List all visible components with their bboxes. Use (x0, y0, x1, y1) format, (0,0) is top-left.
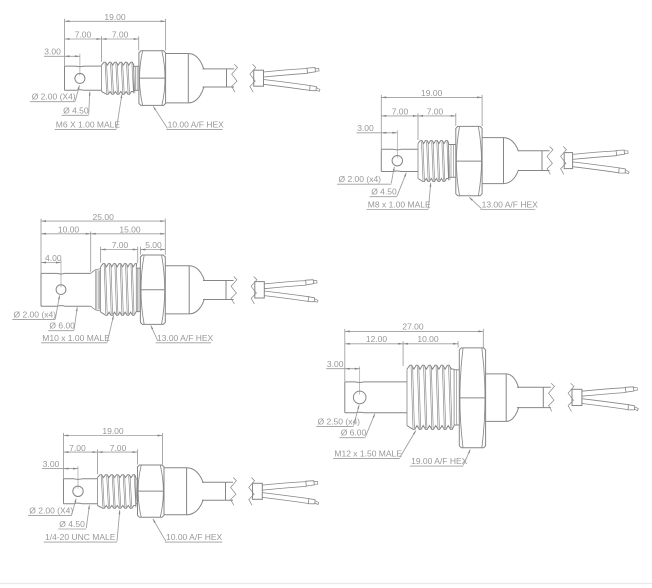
hole centreline drawing 1 (79, 54, 81, 76)
cable break mark 2 (drawing 3) (251, 277, 257, 305)
svg-text:M8 x 1.00 MALE: M8 x 1.00 MALE (368, 200, 431, 210)
extension line hex left (drawing 5) (137, 449, 139, 464)
sensor body drawing 2 (482, 137, 503, 139)
thread runout shoulder drawing 4 (454, 369, 459, 371)
dimension 7.00 (drawing 3) (101, 249, 138, 251)
thread runout shoulder drawing 1 (134, 65, 139, 67)
drawing 4 group start (316, 321, 638, 466)
svg-text:27.00: 27.00 (402, 321, 424, 331)
wire stub and lead wires drawing 3 (255, 282, 264, 298)
svg-text:10.00 A/F HEX: 10.00 A/F HEX (166, 532, 223, 542)
cable exit sleeve drawing 5 (201, 483, 226, 500)
cable exit sleeve drawing 1 (201, 70, 227, 87)
extension line tip end (drawing 3) (90, 231, 92, 272)
extension line hex left (drawing 2) (455, 113, 457, 126)
svg-text:10.00 A/F HEX: 10.00 A/F HEX (168, 119, 225, 129)
extension line thread end (drawing 3) (137, 247, 139, 263)
dimension 25.00 (drawing 3) (41, 220, 165, 222)
svg-text:7.00: 7.00 (392, 107, 409, 117)
hole centreline drawing 5 (77, 466, 79, 489)
sensor body drawing 3 (165, 265, 189, 267)
cable break mark 2 (drawing 4) (568, 383, 574, 411)
extension line left (drawing 3) (40, 219, 42, 274)
threaded section M12 (drawing 4) (407, 365, 454, 369)
cable break mark 2 (drawing 2) (561, 147, 567, 175)
svg-text:Ø 2.00 (x4): Ø 2.00 (x4) (14, 309, 57, 319)
svg-text:19.00: 19.00 (102, 426, 124, 436)
extension line hex left (drawing 1) (138, 36, 140, 50)
dimension 3.00 (drawing 2) (357, 132, 398, 134)
svg-text:12.00: 12.00 (366, 334, 388, 344)
svg-text:7.00: 7.00 (427, 107, 444, 117)
cable break mark 1 (drawing 4) (549, 383, 555, 411)
svg-text:Ø 6.00: Ø 6.00 (49, 321, 75, 331)
cable exit sleeve drawing 4 (516, 388, 544, 407)
svg-text:7.00: 7.00 (112, 30, 129, 40)
svg-text:4.00: 4.00 (45, 253, 62, 263)
cable break mark 1 (drawing 2) (547, 147, 553, 175)
probe tip cylinder drawing 2 (381, 148, 418, 151)
wire stub and lead wires drawing 2 (564, 153, 572, 169)
cable break mark 1 (drawing 5) (231, 478, 237, 506)
hex nut 10 A/F (drawing 1) (139, 51, 166, 106)
dimension 12.00 (drawing 4) (345, 343, 403, 345)
hex nut 10 A/F (drawing 5) (138, 465, 165, 517)
dimension 7.00 right (drawing 1) (102, 38, 139, 40)
svg-text:7.00: 7.00 (69, 443, 86, 453)
svg-text:7.00: 7.00 (75, 30, 92, 40)
svg-text:5.00: 5.00 (145, 240, 162, 250)
threaded section M10 (drawing 3) (101, 264, 137, 267)
extension line thread start (drawing 4) (402, 341, 404, 366)
dimension 3.00 (drawing 5) (42, 468, 78, 470)
wire stub and lead wires drawing 5 (253, 483, 263, 499)
svg-text:Ø 4.50: Ø 4.50 (59, 519, 85, 529)
extension line left (drawing 1) (64, 19, 66, 66)
hex nut 19 A/F (drawing 4) (459, 348, 485, 448)
dimension 10.00 (drawing 4) (403, 343, 458, 345)
svg-text:Ø 4.50: Ø 4.50 (63, 105, 89, 115)
cross hole drawing 1 (75, 73, 85, 83)
svg-text:15.00: 15.00 (119, 225, 141, 235)
svg-text:7.00: 7.00 (112, 240, 129, 250)
hex nut 13 A/F (drawing 3) (140, 255, 165, 324)
svg-text:Ø 6.00: Ø 6.00 (341, 428, 367, 438)
dimension 27.00 (drawing 4) (345, 330, 484, 332)
svg-text:3.00: 3.00 (44, 47, 61, 57)
dimension 19.00 (drawing 1) (65, 20, 166, 22)
extension line left (drawing 4) (344, 329, 346, 382)
hex nut 13 A/F (drawing 2) (456, 126, 482, 195)
cable break mark 1 (drawing 1) (232, 64, 238, 92)
dimension 4.00 (drawing 3) (41, 262, 61, 264)
thread runout shoulder drawing 3 (136, 267, 140, 269)
dimension 19.00 (drawing 2) (381, 96, 482, 98)
svg-text:Ø 2.00 (X4): Ø 2.00 (X4) (29, 505, 73, 515)
svg-text:13.00 A/F HEX: 13.00 A/F HEX (157, 333, 214, 343)
cable break mark 2 (drawing 5) (249, 478, 255, 506)
extension line thread start (drawing 1) (101, 36, 103, 62)
svg-text:19.00 A/F HEX: 19.00 A/F HEX (411, 456, 468, 466)
cross hole drawing 3 (56, 285, 66, 295)
dimension 3.00 (drawing 1) (44, 55, 80, 57)
probe tip cylinder drawing 3 (41, 272, 91, 275)
svg-text:3.00: 3.00 (327, 359, 344, 369)
hole centreline drawing 3 (60, 260, 62, 288)
svg-text:25.00: 25.00 (93, 212, 115, 222)
extension line hex right (drawing 5) (162, 433, 164, 465)
dimension 7.00 right (drawing 5) (98, 451, 138, 453)
dimension 15.00 (drawing 3) (91, 233, 166, 235)
hole centreline drawing 2 (396, 130, 398, 158)
thread runout shoulder drawing 5 (136, 478, 138, 480)
extension line thread end (drawing 4) (457, 341, 459, 347)
cross hole drawing 4 (353, 391, 366, 404)
cable break mark 1 (drawing 3) (231, 277, 237, 305)
cable exit sleeve drawing 2 (517, 151, 543, 170)
svg-text:19.00: 19.00 (104, 12, 126, 22)
svg-text:M10 x 1.00 MALE: M10 x 1.00 MALE (42, 333, 110, 343)
sensor body drawing 5 (164, 467, 187, 469)
svg-text:Ø 2.00 (X4): Ø 2.00 (X4) (32, 92, 76, 102)
drawing 3 group start (12, 212, 318, 343)
svg-text:10.00: 10.00 (417, 334, 439, 344)
dimension 19.00 (drawing 5) (64, 435, 163, 437)
cross hole drawing 5 (73, 486, 83, 496)
threaded section M8 (drawing 2) (418, 141, 449, 144)
dimension 7.00 left (drawing 1) (65, 38, 102, 40)
wire stub and lead wires drawing 4 (572, 389, 582, 405)
svg-text:13.00 A/F HEX: 13.00 A/F HEX (482, 200, 539, 210)
threaded section M6 (drawing 1) (102, 62, 134, 65)
probe tip cylinder drawing 1 (65, 65, 102, 68)
svg-text:Ø 4.50: Ø 4.50 (371, 187, 397, 197)
extension line thread start (drawing 2) (417, 113, 419, 140)
dimension 7.00 right (drawing 2) (418, 115, 456, 117)
thread runout neck (drawing 3) (91, 270, 95, 274)
extension line left (drawing 2) (380, 95, 382, 149)
probe tip cylinder drawing 5 (64, 478, 98, 481)
cable exit sleeve drawing 3 (202, 281, 227, 299)
cable break mark 2 (drawing 1) (250, 64, 256, 92)
threaded section 1/4-20 UNC (drawing 5) (98, 475, 136, 478)
extension line thread start (drawing 3) (100, 247, 102, 263)
extension line hex right (drawing 1) (165, 19, 167, 51)
dimension 7.00 left (drawing 5) (64, 451, 98, 453)
dimension 7.00 left (drawing 2) (381, 115, 418, 117)
svg-text:10.00: 10.00 (58, 225, 80, 235)
svg-text:3.00: 3.00 (43, 459, 60, 469)
svg-text:3.00: 3.00 (357, 123, 374, 133)
drawing 5 group start (28, 426, 319, 542)
probe tip cylinder drawing 4 (345, 381, 407, 384)
dimension 3.00 (drawing 4) (326, 368, 360, 370)
extension line thread start (drawing 5) (97, 449, 99, 474)
extension line hex right (drawing 2) (481, 95, 483, 126)
svg-text:Ø 2.00 (x4): Ø 2.00 (x4) (339, 174, 382, 184)
dimension 5.00 (drawing 3) (140, 249, 165, 251)
extension line hex left (drawing 3) (139, 247, 141, 255)
svg-text:19.00: 19.00 (421, 88, 443, 98)
svg-text:M6 X 1.00 MALE: M6 X 1.00 MALE (56, 119, 121, 129)
cross hole drawing 2 (392, 156, 402, 166)
wire stub and lead wires drawing 1 (254, 70, 264, 86)
drawing 1 group start (30, 12, 320, 129)
thread runout shoulder drawing 2 (449, 144, 456, 146)
sheet bottom edge (0, 583, 652, 585)
dimension 10.00 (drawing 3) (41, 233, 91, 235)
extension line left (drawing 5) (63, 433, 65, 479)
svg-text:M12 x 1.50 MALE: M12 x 1.50 MALE (334, 448, 402, 458)
svg-text:1/4-20 UNC MALE: 1/4-20 UNC MALE (45, 532, 116, 542)
extension line hex right (drawing 4) (482, 329, 484, 348)
sensor body drawing 1 (166, 53, 189, 55)
sensor body drawing 4 (486, 373, 507, 375)
extension line hex right (drawing 3) (164, 219, 166, 255)
hole centreline drawing 4 (359, 366, 361, 394)
svg-text:7.00: 7.00 (110, 443, 127, 453)
drawing 2 group start (337, 88, 629, 209)
